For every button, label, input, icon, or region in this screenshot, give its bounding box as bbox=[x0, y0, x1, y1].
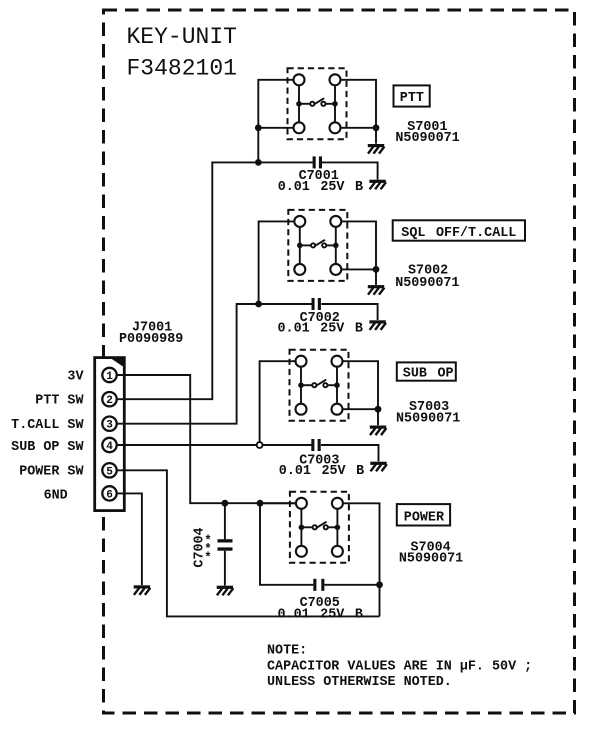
wire C7005 right segment bbox=[324, 584, 379, 586]
svg-text:SUB OP SW: SUB OP SW bbox=[11, 440, 84, 455]
svg-text:SUB OP: SUB OP bbox=[403, 367, 454, 382]
svg-text:N5090071: N5090071 bbox=[396, 411, 460, 426]
svg-text:0.01 25V B: 0.01 25V B bbox=[278, 321, 363, 336]
node C7002 junction bbox=[255, 301, 262, 308]
switch S7002 bbox=[288, 210, 347, 281]
wire S7002 right bus to ground bbox=[341, 221, 376, 285]
pin 3 bbox=[102, 417, 116, 431]
svg-text:SQL OFF/T.CALL: SQL OFF/T.CALL bbox=[401, 226, 516, 241]
capacitor C7002 bbox=[312, 298, 321, 310]
ground C7002 bbox=[369, 320, 386, 330]
wire S7001 left bus and taps bbox=[258, 80, 294, 163]
wire C7005 left branch bbox=[260, 503, 313, 585]
ground C7001 bbox=[369, 180, 386, 190]
capacitor C7004 bbox=[218, 539, 233, 551]
ground S7002 bbox=[368, 285, 385, 295]
svg-text:N5090071: N5090071 bbox=[395, 131, 459, 146]
wire S7001 right bus to ground bbox=[340, 80, 376, 144]
wire pin2 PTT: right, up, right to C7001 node bbox=[117, 162, 313, 399]
node S7002 right-bottom junction bbox=[373, 266, 380, 273]
svg-text:5: 5 bbox=[106, 466, 113, 478]
node S7001 right-bottom junction bbox=[373, 124, 380, 131]
svg-text:UNLESS OTHERWISE NOTED.: UNLESS OTHERWISE NOTED. bbox=[267, 675, 452, 690]
label box SUB OP bbox=[397, 362, 456, 380]
ground pin6 bbox=[134, 585, 151, 595]
svg-text:F3482101: F3482101 bbox=[127, 56, 237, 82]
wire pin5 POWER SW: right, down, right to S7004 right bus bbox=[117, 470, 380, 616]
wire S7003 left bus bbox=[260, 361, 296, 445]
svg-text:NOTE:: NOTE: bbox=[267, 643, 307, 658]
wire C7001 right to ground bbox=[322, 162, 378, 179]
label box SQL OFF/T.CALL bbox=[393, 220, 525, 240]
wire C7004 vertical bbox=[224, 503, 226, 585]
svg-text:PTT: PTT bbox=[400, 91, 424, 106]
node S7001 left-bottom junction bbox=[255, 124, 262, 131]
svg-text:CAPACITOR VALUES ARE IN µF. 50: CAPACITOR VALUES ARE IN µF. 50V ; bbox=[267, 660, 532, 675]
pin 1 bbox=[102, 368, 116, 382]
wire pin6 GND to ground bbox=[117, 493, 142, 585]
node C7005 right junction bbox=[376, 581, 383, 588]
svg-text:1: 1 bbox=[106, 371, 113, 383]
label box PTT bbox=[394, 85, 430, 106]
label box POWER bbox=[397, 504, 450, 525]
svg-text:POWER: POWER bbox=[404, 510, 445, 525]
pin 2 bbox=[102, 392, 116, 406]
wire S7003 right bus to ground bbox=[342, 361, 378, 425]
ground C7003 bbox=[370, 462, 387, 472]
node S7004 left junction bbox=[257, 500, 264, 507]
svg-text:3: 3 bbox=[106, 420, 113, 432]
frame dashed border bbox=[104, 10, 575, 713]
svg-text:6: 6 bbox=[106, 489, 113, 501]
svg-text:PTT SW: PTT SW bbox=[35, 394, 84, 409]
svg-text:0.01 25V B: 0.01 25V B bbox=[278, 607, 363, 622]
node S7003 right-bottom junction bbox=[375, 406, 382, 413]
svg-text:3V: 3V bbox=[67, 369, 84, 384]
svg-text:6ND: 6ND bbox=[44, 488, 68, 503]
wire C7002 right to ground bbox=[321, 304, 377, 320]
svg-text:0.01 25V B: 0.01 25V B bbox=[279, 464, 364, 479]
svg-text:N5090071: N5090071 bbox=[395, 276, 459, 291]
wire pin3 T.CALL: right, up, right to C7002 node bbox=[117, 304, 312, 424]
switch S7004 bbox=[290, 492, 349, 563]
svg-text:0.01 25V B: 0.01 25V B bbox=[278, 180, 363, 195]
connector polarity triangle bbox=[112, 359, 124, 367]
connector J7001 box bbox=[95, 358, 125, 511]
wire pin4 SUB OP to C7003 bbox=[117, 444, 312, 446]
node C7001 junction bbox=[255, 159, 262, 166]
svg-text:*: * bbox=[204, 551, 212, 565]
svg-text:P0090989: P0090989 bbox=[119, 332, 183, 347]
wire S7004 left tap bbox=[260, 502, 296, 504]
svg-text:2: 2 bbox=[106, 395, 113, 407]
svg-text:N5090071: N5090071 bbox=[399, 551, 463, 566]
switch S7001 bbox=[288, 68, 347, 139]
switch S7003 bbox=[290, 350, 349, 421]
svg-text:KEY-UNIT: KEY-UNIT bbox=[127, 24, 237, 50]
wire S7002 left bus bbox=[259, 221, 295, 304]
wire C7003 right to ground bbox=[321, 445, 379, 461]
node C7004 junction bbox=[222, 500, 229, 507]
capacitor C7003 bbox=[311, 439, 320, 451]
ground C7004 bbox=[217, 586, 234, 596]
svg-text:4: 4 bbox=[106, 441, 113, 453]
pin 6 bbox=[102, 486, 116, 500]
node C7003 open junction bbox=[257, 442, 263, 448]
ground S7001 bbox=[368, 144, 385, 154]
pin 4 bbox=[102, 438, 116, 452]
capacitor C7001 bbox=[313, 156, 322, 168]
pin 5 bbox=[102, 463, 116, 477]
ground S7003 bbox=[370, 426, 387, 436]
wire S7004 right bus down bbox=[343, 503, 380, 616]
capacitor C7005 bbox=[313, 579, 324, 591]
svg-text:POWER SW: POWER SW bbox=[19, 464, 84, 479]
wire pin1 3V rail: right, down, right to S7004 bbox=[117, 375, 296, 503]
svg-text:T.CALL SW: T.CALL SW bbox=[11, 418, 84, 433]
